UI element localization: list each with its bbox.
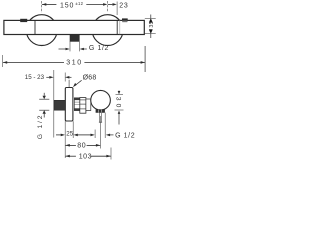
left wall bracket nut: [20, 19, 27, 22]
svg-text:Ø68: Ø68: [83, 75, 97, 82]
svg-text:80: 80: [77, 143, 86, 150]
nipple dim ticks: [39, 98, 49, 100]
outlet extension lines: [69, 41, 71, 51]
nipple dim arrows: [43, 93, 46, 118]
union nut: [80, 98, 86, 114]
dim 150 line: [42, 1, 108, 13]
outlet left ext line: [94, 130, 96, 139]
wall line: [53, 70, 55, 138]
15-23 right ext line: [64, 73, 66, 82]
outlet pipe stub: [98, 113, 100, 123]
outlet dim arrows: [74, 134, 95, 137]
left handle seam: [34, 20, 36, 34]
left escutcheon circle: [26, 15, 57, 46]
dim 103: [66, 148, 112, 160]
svg-text:25: 25: [66, 131, 73, 138]
collar: [86, 99, 91, 111]
right height dim 35: [145, 15, 156, 39]
escutcheon centerline ext: [68, 80, 70, 88]
svg-text:103: 103: [79, 153, 92, 160]
G 1/2 label bottom right: [106, 134, 114, 137]
outlet under body: [96, 110, 105, 113]
dim 30 right: [115, 91, 124, 125]
svg-text:±12: ±12: [75, 1, 83, 6]
svg-text:30: 30: [115, 97, 122, 111]
right handle seam: [116, 20, 118, 34]
body circle: [91, 90, 111, 110]
dim 15-23 arrows: [46, 76, 71, 79]
dim 310: [3, 46, 145, 72]
right wall bracket nut: [122, 18, 128, 21]
wall nipple: [54, 100, 65, 110]
svg-text:G 1/2: G 1/2: [37, 114, 44, 140]
svg-text:23: 23: [119, 2, 128, 9]
outlet G1/2 arrows: [59, 48, 87, 51]
Ø68 leader: [73, 80, 82, 87]
escutcheon disc side: [65, 88, 73, 122]
right seam detail line: [119, 20, 121, 34]
svg-text:310: 310: [66, 59, 82, 66]
dim 23: [108, 2, 117, 16]
svg-text:G 1/2: G 1/2: [115, 132, 135, 139]
svg-text:35: 35: [149, 21, 155, 27]
outlet nipple front: [70, 35, 79, 42]
svg-text:15 - 23: 15 - 23: [25, 74, 45, 81]
dim 25: [56, 121, 73, 158]
dim 80: [66, 116, 101, 149]
outlet right ext line: [104, 113, 106, 139]
svg-text:G 1/2: G 1/2: [89, 45, 109, 52]
svg-text:150: 150: [60, 2, 74, 9]
union piece: [74, 98, 80, 111]
mixer bar body: [4, 20, 144, 34]
right escutcheon circle: [92, 15, 123, 46]
